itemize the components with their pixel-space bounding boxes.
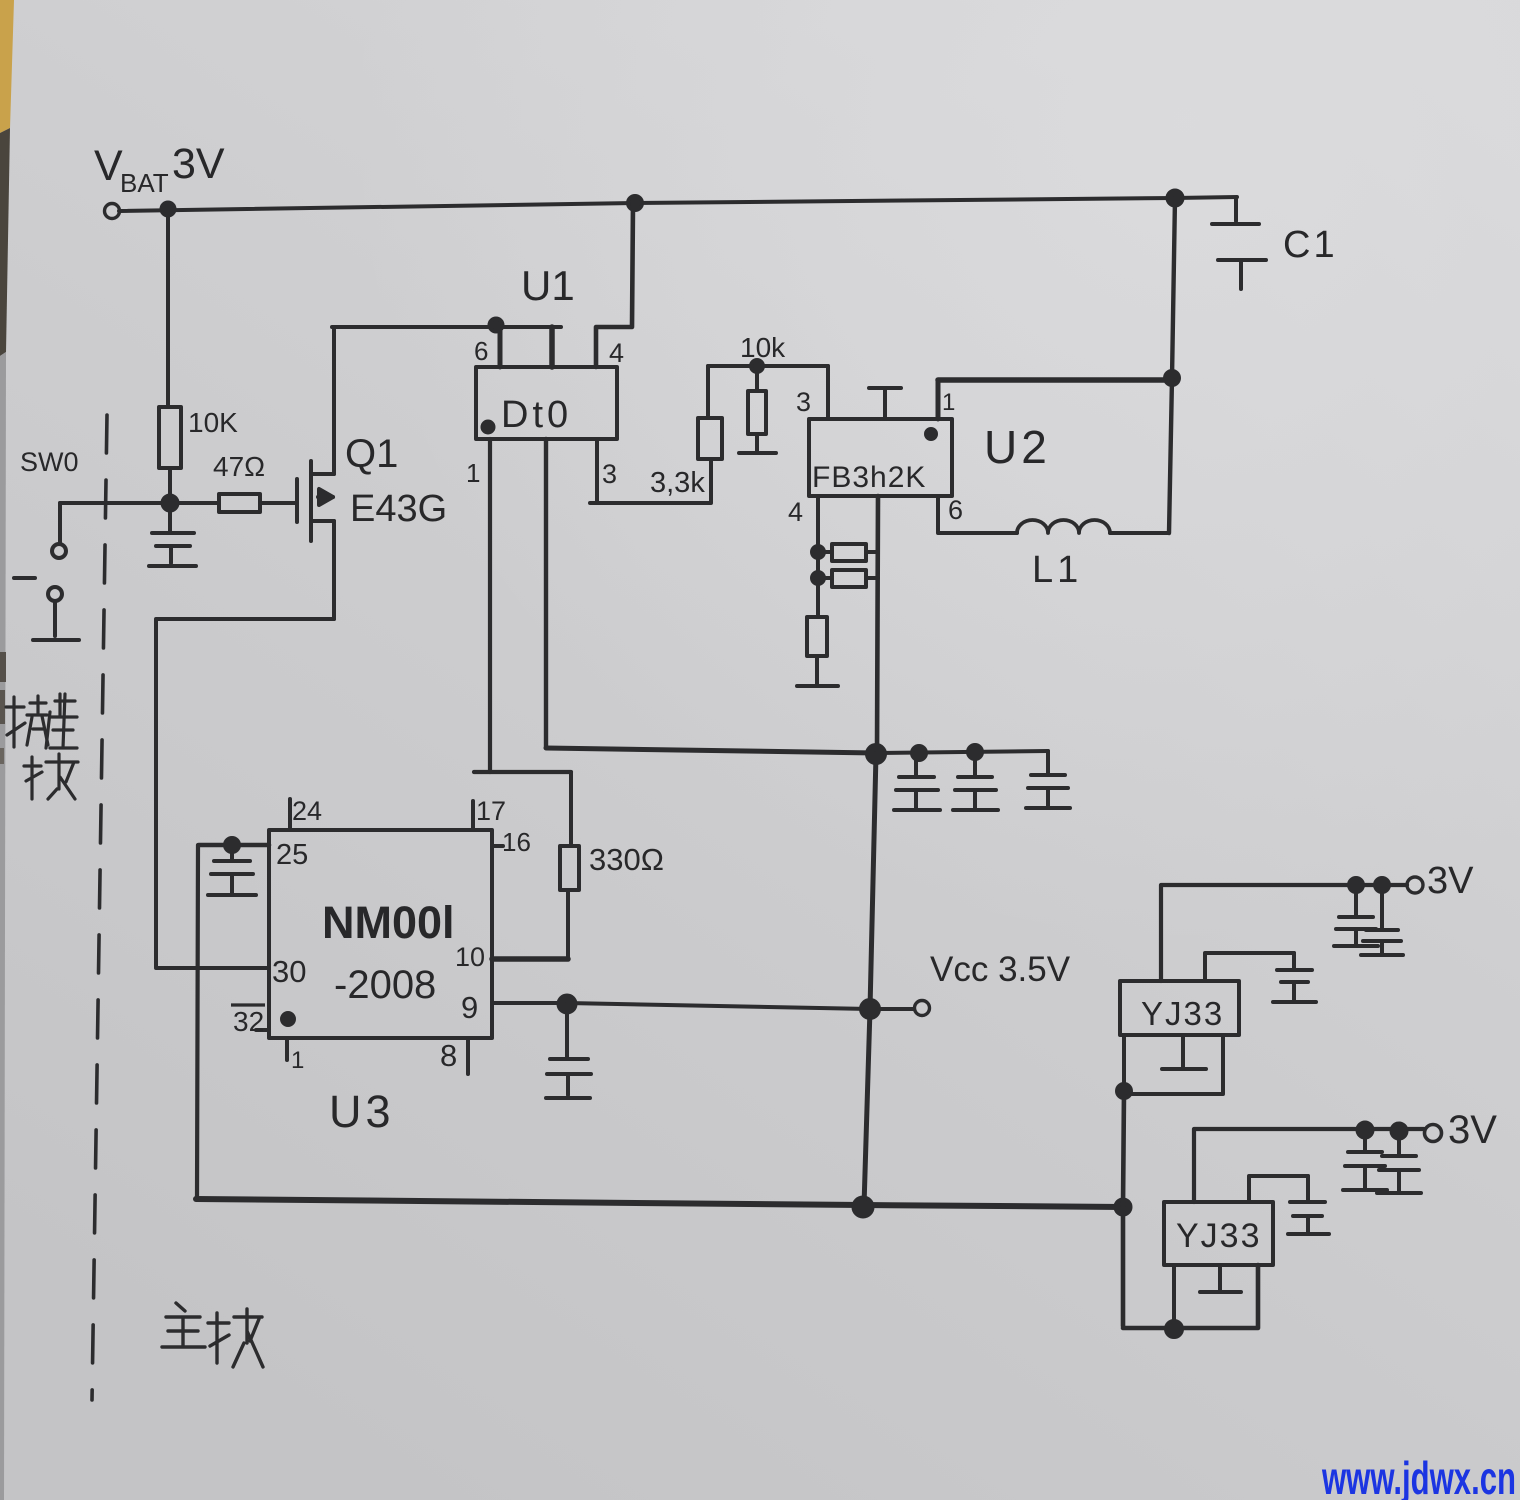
label 板 hand strokes — [24, 754, 78, 799]
capacitor to ground (2nd) — [953, 752, 998, 810]
svg-text:Dt0: Dt0 — [501, 394, 572, 436]
svg-text:3V: 3V — [172, 140, 225, 188]
wire YJ33-1 pin to 3V rail — [1161, 885, 1407, 981]
pin stub of U1 second top pin — [549, 327, 555, 367]
wire pin1 elbow to 330R — [474, 770, 571, 774]
wire U3 pin25 — [199, 843, 269, 848]
pin 1 stub of U2 — [936, 380, 941, 419]
svg-text:4: 4 — [609, 338, 624, 368]
capacitor 3V c — [1343, 1130, 1387, 1190]
resistor 10K (pull-up at VBAT) — [159, 209, 181, 503]
junction YJ33-2 loop — [1166, 1321, 1182, 1337]
IC U1 box (Dt0) — [476, 367, 617, 439]
junction on rail at 10K — [162, 203, 175, 216]
junction at U2 pin1 wire — [1165, 371, 1179, 385]
inductor L1 — [1017, 520, 1110, 533]
wire U1 pin3 to 3.3k — [590, 439, 711, 503]
pin 1 stub — [285, 1038, 289, 1060]
wire right branch down to bottom rail — [1123, 1091, 1124, 1207]
svg-text:10k: 10k — [740, 332, 786, 363]
bottom ground rail — [196, 1199, 1123, 1207]
svg-text:32: 32 — [233, 1006, 264, 1037]
svg-text:6: 6 — [474, 336, 488, 366]
wire bottom rail to YJ33-2 loop — [1123, 1207, 1258, 1328]
svg-text:47Ω: 47Ω — [213, 451, 265, 482]
wire YJ33-2 pin to 3V rail — [1194, 1129, 1424, 1202]
junction 3V cap a — [1349, 878, 1363, 892]
capacitor at pin25 to ground — [208, 845, 256, 895]
svg-text:FB3h2K: FB3h2K — [812, 461, 926, 494]
ground below SW0 — [33, 638, 79, 642]
resistor below pin4 to ground — [807, 617, 827, 684]
wire mid node to caps — [876, 751, 1048, 753]
capacitor to ground (1st) — [894, 753, 940, 810]
ground inside YJ33-1 loop — [1162, 1035, 1206, 1069]
pin1 marker dot inside U1 — [483, 422, 494, 433]
capacitor 3V b — [1361, 885, 1403, 955]
pin 8 stub — [466, 1038, 470, 1074]
junction cap1 — [912, 746, 926, 760]
svg-text:SW0: SW0 — [20, 447, 79, 477]
svg-text:NM00l: NM00l — [322, 897, 455, 948]
IC YJ33 (second) box — [1164, 1202, 1273, 1265]
wire U2 center pin down to Vcc node — [877, 496, 878, 754]
junction at U1 pin6 — [490, 319, 503, 332]
svg-text:YJ33: YJ33 — [1141, 995, 1224, 1032]
IC YJ33 (first) box — [1120, 981, 1239, 1035]
svg-text:25: 25 — [276, 839, 308, 871]
svg-text:30: 30 — [272, 954, 306, 989]
label 主 hand strokes — [162, 1303, 205, 1347]
photo left edge: gray strip — [0, 352, 6, 1500]
svg-text:-2008: -2008 — [334, 963, 436, 1007]
svg-text:17: 17 — [476, 796, 506, 826]
wire left branch down to bottom rail — [197, 845, 198, 1199]
wire Q1 source to U3 pin30 — [156, 619, 334, 968]
wire Vcc to terminal — [870, 1007, 914, 1011]
wire U2 pin6 to L1 — [938, 496, 1017, 533]
svg-text:1: 1 — [942, 389, 955, 416]
wire Vcc vertical down — [864, 754, 876, 1206]
IC U2 box (FB3h2K) — [809, 419, 952, 496]
svg-text:U2: U2 — [984, 421, 1051, 473]
junction 3V cap d — [1392, 1124, 1407, 1139]
wire U2 pin1 to VBAT vertical — [938, 377, 1172, 383]
junction pin4 lower — [812, 572, 824, 584]
gate bar — [295, 479, 299, 522]
photo left edge: dark strip — [0, 128, 10, 356]
junction at gate node — [163, 496, 178, 511]
junction on rail at C1 — [1168, 191, 1183, 206]
junction mid node — [867, 745, 885, 763]
svg-text:BAT: BAT — [120, 168, 169, 198]
IC U3 box (NM001-2008) — [269, 830, 492, 1038]
wire L1 to VBAT vertical — [1110, 531, 1169, 535]
wire U1 second bottom pin down — [544, 439, 548, 748]
channel bar — [309, 461, 313, 541]
pin 24 stub — [288, 799, 292, 830]
label 按键 hand strokes — [6, 694, 77, 748]
drain lead up — [332, 327, 336, 474]
capacitor to ground (3rd) — [1026, 751, 1070, 808]
svg-text:C1: C1 — [1283, 224, 1338, 266]
svg-text:3V: 3V — [1427, 860, 1474, 902]
wire between junctions — [816, 552, 820, 617]
resistor (lower feedback) — [818, 570, 878, 587]
svg-text:3: 3 — [602, 459, 617, 489]
capacitor C1 — [1212, 199, 1266, 289]
svg-text:U1: U1 — [521, 262, 575, 309]
junction 3V cap b — [1375, 878, 1389, 892]
resistor 47R — [170, 494, 296, 512]
label 板(2) hand strokes — [208, 1309, 263, 1367]
svg-text:10K: 10K — [188, 407, 238, 438]
wire YJ33-1 bottom loop — [1124, 1035, 1223, 1094]
wire U1 pin1 down — [488, 439, 492, 772]
wire VBAT rail down to U2 pin1 junction — [1172, 198, 1175, 378]
svg-text:6: 6 — [948, 495, 963, 525]
pin 17 stub — [471, 801, 475, 830]
pin 32 stub — [256, 1028, 269, 1032]
junction bottom rail right vertical — [1116, 1200, 1131, 1215]
wire U3 pin10 to 330R — [492, 956, 568, 962]
capacitor 3V d — [1377, 1131, 1421, 1193]
svg-text:16: 16 — [502, 827, 531, 857]
source stub — [311, 519, 334, 523]
transistor Q1 E43G — [297, 327, 334, 619]
wire 10k node horizontal — [708, 364, 828, 368]
svg-text:24: 24 — [292, 796, 322, 826]
ground below YJ33-2 — [1200, 1265, 1241, 1292]
svg-text:E43G: E43G — [350, 488, 447, 530]
wire U3 pin9 to Vcc — [492, 1001, 567, 1005]
junction pin4 upper — [812, 546, 824, 558]
pin 6 stub of U1 — [498, 327, 503, 367]
svg-text:1: 1 — [466, 458, 480, 488]
svg-text:10: 10 — [455, 942, 485, 972]
board split dashed line — [92, 415, 107, 1400]
wire U2 pin4 down — [816, 496, 820, 552]
wire YJ33-2 left pin down — [1172, 1265, 1176, 1329]
svg-text:www.jdwx.cn: www.jdwx.cn — [1321, 1452, 1516, 1500]
resistor 330R — [560, 772, 579, 959]
node VBAT: top supply rail — [119, 197, 1237, 211]
resistor 10k to ground — [739, 366, 776, 453]
junction cap2 — [968, 745, 982, 759]
svg-text:Vcc 3.5V: Vcc 3.5V — [930, 950, 1071, 989]
arrow — [318, 495, 333, 499]
svg-text:3: 3 — [796, 387, 811, 417]
terminal 3V open circle lower — [1425, 1125, 1442, 1142]
switch SW0 — [14, 503, 66, 636]
capacitor at YJ33-2 right — [1288, 1176, 1329, 1234]
pin 16 stub — [492, 844, 503, 848]
wire junction down to L1 — [1169, 378, 1172, 533]
pin marker dot inside U2 — [926, 429, 936, 439]
svg-text:YJ33: YJ33 — [1176, 1217, 1262, 1255]
wire YJ33-1 second pin to cap — [1205, 953, 1294, 981]
svg-text:3,3k: 3,3k — [650, 467, 705, 499]
capacitor at YJ33-1 right — [1273, 953, 1316, 1002]
ground below pin4 resistor — [797, 684, 838, 688]
wire pin9 to Vcc junction — [567, 1003, 870, 1009]
resistor (upper feedback) — [818, 544, 878, 561]
svg-text:1: 1 — [291, 1047, 304, 1074]
junction pin9 cap — [559, 996, 576, 1013]
junction on rail at U1 pin4 — [628, 196, 642, 210]
svg-text:4: 4 — [788, 497, 803, 527]
svg-text:V: V — [94, 142, 123, 190]
resistor 3.3k — [698, 366, 722, 459]
svg-text:8: 8 — [440, 1038, 457, 1073]
svg-text:L1: L1 — [1032, 549, 1082, 591]
overline pin32 — [231, 1003, 265, 1006]
wire mid horizontal U1 line to Vcc vertical — [546, 748, 876, 753]
wire to U2 pin3 — [826, 366, 830, 419]
pin marker dot inside U3 — [282, 1013, 294, 1025]
capacitor at gate node to ground — [149, 503, 196, 566]
left edge smudge marks — [0, 652, 6, 682]
junction loop to vertical — [1117, 1084, 1131, 1098]
svg-text:U3: U3 — [329, 1086, 395, 1137]
svg-text:9: 9 — [461, 990, 478, 1025]
wire gate node horizontal — [60, 501, 170, 505]
junction at 10k — [751, 360, 763, 372]
wire YJ33-2 second pin to cap — [1249, 1176, 1308, 1202]
svg-text:330Ω: 330Ω — [589, 842, 664, 877]
drain stub — [311, 472, 334, 476]
capacitor at pin9 to ground — [546, 1004, 591, 1098]
svg-text:Q1: Q1 — [345, 432, 398, 476]
capacitor 3V a — [1334, 885, 1378, 946]
photo left edge: yellow strip — [0, 0, 14, 133]
terminal VBAT open circle — [105, 204, 120, 219]
source lead down — [332, 521, 336, 619]
wire U1 pin4 up to VBAT rail — [596, 203, 633, 367]
junction Vcc — [861, 1000, 879, 1018]
junction bottom rail Vcc vertical — [854, 1198, 873, 1217]
wire Q1 drain to U1 pin6 — [332, 325, 561, 329]
junction 3V cap c — [1358, 1123, 1373, 1138]
ground T symbol at U2 pin2 — [869, 388, 901, 419]
terminal Vcc open circle — [915, 1001, 930, 1016]
junction at pin25 cap — [225, 838, 239, 852]
svg-text:3V: 3V — [1448, 1108, 1497, 1152]
terminal 3V open circle — [1407, 877, 1423, 893]
